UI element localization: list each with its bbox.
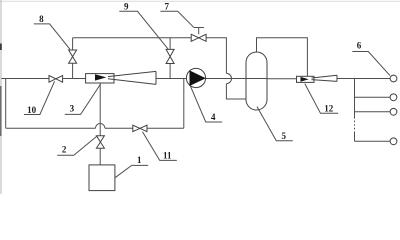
wire vessel right outlet xyxy=(267,78,297,80)
wire return bottom run (left of hop) xyxy=(6,127,96,129)
leader label 11 xyxy=(143,132,177,161)
leader label 4 xyxy=(190,86,222,122)
svg-text:5: 5 xyxy=(281,131,286,141)
wire pump through vessel xyxy=(206,78,268,80)
wire return bottom run (valve 11 to right riser) xyxy=(147,127,184,129)
leader label 3 xyxy=(65,84,101,114)
wire manifold vertical (dotted part) xyxy=(354,117,356,133)
wire stub to terminal 4 xyxy=(355,140,391,142)
valve 7 stem xyxy=(194,28,204,35)
valve 9 xyxy=(166,49,174,63)
wire manifold vertical (solid part) xyxy=(354,79,356,118)
wire elbow into vessel lower nozzle xyxy=(226,84,246,99)
wire manifold vertical (lower solid) xyxy=(354,133,356,142)
wire return right riser xyxy=(183,79,185,129)
device 12 body xyxy=(297,76,315,82)
pump P4 circle xyxy=(186,68,205,87)
wire stub to terminal 2 xyxy=(355,96,391,98)
leader label 10 xyxy=(24,81,55,114)
pump P4 rotor (solid) xyxy=(190,70,206,86)
wire valve 7 to down corner xyxy=(206,38,226,74)
ejector U3 diffuser cone xyxy=(108,71,156,84)
leader label 7 xyxy=(160,11,193,27)
wire device 12 to terminal circle xyxy=(337,78,390,80)
svg-text:6: 6 xyxy=(357,41,362,51)
terminal circle 1 xyxy=(390,75,397,82)
ejector U3 body xyxy=(86,74,114,83)
wire vessel top riser and over-top run xyxy=(257,38,308,77)
leader label 9 xyxy=(119,11,168,49)
device 12 cone xyxy=(312,75,338,81)
leader label 12 xyxy=(305,84,338,114)
valve 2 xyxy=(96,136,104,149)
wire riser of valve 9 (upper) xyxy=(169,38,171,50)
svg-text:1: 1 xyxy=(137,155,142,165)
leader label 8 xyxy=(34,24,70,49)
terminal circle 3 xyxy=(390,108,397,115)
leader label 2 xyxy=(57,136,97,155)
wire riser of valve 8 (upper) xyxy=(72,38,74,50)
svg-text:10: 10 xyxy=(27,105,37,115)
wire hop over main line xyxy=(226,73,231,83)
valve 7 xyxy=(191,34,206,41)
wire top bypass line xyxy=(73,37,192,39)
ejector U3 nozzle (solid) xyxy=(95,74,106,80)
terminal circle 2 xyxy=(390,94,397,101)
valve 11 xyxy=(133,125,147,131)
svg-text:4: 4 xyxy=(211,112,216,122)
svg-text:2: 2 xyxy=(62,145,67,155)
vessel V5 xyxy=(246,52,267,110)
svg-text:3: 3 xyxy=(70,104,75,114)
wire valve 2 to tank xyxy=(99,148,101,165)
svg-text:9: 9 xyxy=(124,1,129,11)
valve 10 xyxy=(49,76,63,83)
terminal circle 4 xyxy=(390,138,397,145)
wire stub to terminal 3 xyxy=(355,111,391,113)
wire ejector to pump (tees at risers) xyxy=(156,78,187,80)
wire hop over suction line xyxy=(96,123,105,128)
wire valve 10 to ejector xyxy=(63,78,86,80)
leader label 1 xyxy=(115,165,148,177)
wire suction from ejector xyxy=(99,83,101,136)
wire return bottom run (hop to valve 11) xyxy=(105,127,133,129)
svg-text:12: 12 xyxy=(324,104,334,114)
device 12 nozzle (solid) xyxy=(301,77,309,82)
svg-text:11: 11 xyxy=(163,151,172,161)
wire main inlet (left of valve 10) xyxy=(2,78,50,80)
leader label 5 xyxy=(257,107,293,141)
tank T1 xyxy=(89,165,115,191)
svg-text:7: 7 xyxy=(165,1,170,11)
wire return loop left vertical xyxy=(5,79,7,129)
wire riser of valve 9 (lower) xyxy=(169,64,171,79)
leader label 6 xyxy=(352,52,390,76)
valve 8 xyxy=(69,50,77,63)
wire riser of valve 8 (lower) xyxy=(72,63,74,78)
svg-text:8: 8 xyxy=(39,14,44,24)
